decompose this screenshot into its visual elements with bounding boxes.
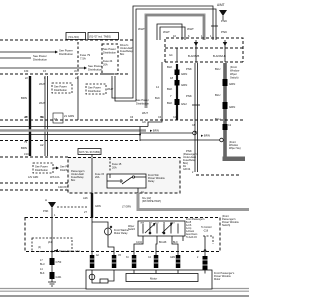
junction in sub-box [51, 251, 53, 253]
svg-text:Front Passenger's: Front Passenger's [186, 218, 205, 221]
svg-text:J9: J9 [74, 70, 77, 73]
label power door locks [54, 249, 81, 253]
svg-text:PNK: PNK [221, 19, 227, 23]
wire outer loop pair WHT [112, 6, 216, 101]
splice blobs on BLU column [223, 79, 228, 130]
svg-text:28: 28 [25, 116, 28, 119]
page bottom rule gray 2 [0, 290, 249, 292]
svg-text:Distribution: Distribution [136, 102, 150, 106]
svg-text:GN2: GN2 [181, 102, 187, 106]
dashed line y175 right [196, 174, 240, 176]
see power distribution dashed box b [86, 84, 106, 94]
svg-text:See Power: See Power [35, 165, 48, 169]
wire long horizontal thin 1 [0, 126, 148, 128]
node A/MT continuation arrow [217, 3, 227, 20]
note box 01-03 ALL TABS [78, 149, 101, 159]
svg-text:Motor Relay: Motor Relay [114, 232, 128, 235]
svg-text:WHT: WHT [39, 82, 46, 86]
svg-text:20A: 20A [103, 63, 108, 67]
dashed line y190 [0, 189, 130, 191]
svg-text:7.5A: 7.5A [80, 57, 86, 61]
connector stub hatched 5 [154, 255, 159, 268]
svg-text:F3: F3 [43, 70, 47, 73]
wire stubs through connector rows [177, 48, 225, 62]
relay box [107, 174, 146, 188]
labels WHT pair [39, 82, 46, 147]
see power distribution dashed box c [33, 163, 53, 173]
svg-text:LO: LO [156, 222, 159, 224]
wire down from sub-box [51, 252, 53, 259]
svg-text:See Power: See Power [103, 47, 116, 51]
in-line connector label box C725 [53, 113, 63, 123]
connector stub hatched 7 right [203, 252, 208, 271]
svg-text:GRN: GRN [170, 257, 175, 259]
svg-text:Relay: Relay [148, 180, 155, 183]
svg-text:BLK: BLK [155, 96, 160, 100]
svg-text:To A2A C6: To A2A C6 [186, 236, 197, 239]
wire BLU highlighted column (gray thick) [225, 63, 245, 159]
label front window wiper switch [230, 65, 239, 80]
svg-text:F30: F30 [24, 70, 29, 73]
combination switch dashed box [165, 38, 243, 62]
wiper switch contact block [138, 221, 185, 236]
label front window wiper switch lower [229, 141, 241, 150]
svg-text:To Control: To Control [201, 226, 212, 229]
svg-text:Power Door Locks: Power Door Locks [59, 249, 81, 253]
labels BLK wire [167, 65, 187, 106]
label power window motor [214, 272, 235, 281]
svg-text:WHT: WHT [142, 111, 148, 115]
to control unit bracket [197, 226, 213, 253]
switch wiper arrow left [194, 40, 198, 48]
wire BRN thick left [29, 76, 31, 156]
svg-text:WHT: WHT [107, 87, 114, 91]
wire highlighted relay to right edge [138, 193, 249, 210]
svg-text:C2: C2 [228, 124, 232, 127]
wire PNK column [195, 63, 198, 172]
wire long horizontal highlighted gray [0, 129, 146, 132]
svg-text:C4(C): C4(C) [136, 242, 142, 244]
wire to terminal circle 1 [140, 131, 196, 135]
tick and labels col 162 [155, 85, 160, 100]
svg-text:MIST: MIST [170, 222, 176, 224]
relay output tick [138, 188, 144, 194]
svg-text:G401: G401 [56, 276, 63, 279]
labels BLU column [215, 67, 235, 121]
svg-text:PNK: PNK [43, 209, 49, 213]
wire GRN feed through fuse box [91, 158, 93, 193]
svg-text:17: 17 [40, 259, 43, 262]
label wiper switch left [128, 225, 136, 231]
svg-text:W/S 10A: W/S 10A [50, 176, 60, 179]
connector tick on PNK column [192, 104, 200, 106]
svg-text:A-Up: A-Up [186, 227, 192, 230]
wire GRN inside switch box [91, 218, 93, 252]
small pin texts under boxes [28, 176, 60, 179]
svg-text:Distribution: Distribution [54, 88, 68, 92]
svg-text:18: 18 [170, 76, 174, 80]
node A continuation triangle left [43, 198, 56, 217]
labels stub1 [40, 259, 62, 279]
svg-text:LT GRN: LT GRN [122, 206, 131, 209]
washer motor circle [105, 226, 115, 251]
wire thin core of highlighted feed [146, 15, 204, 106]
washer motor branch [92, 222, 108, 228]
see power distribution arrow line 3 [0, 64, 102, 72]
label front washer motor [114, 229, 129, 235]
svg-text:A16: A16 [83, 196, 88, 200]
svg-text:BRN: BRN [21, 146, 27, 150]
svg-text:1: 1 [54, 213, 56, 217]
svg-text:Auto Down: Auto Down [186, 233, 198, 236]
dashed line y157 [0, 156, 68, 158]
svg-text:WHT: WHT [138, 27, 145, 31]
dashed line mid-left [0, 73, 130, 75]
svg-text:Window: Window [230, 69, 239, 73]
svg-text:C750: C750 [56, 261, 62, 264]
svg-text:C5: C5 [118, 255, 122, 257]
svg-text:Box: Box [120, 53, 125, 56]
svg-text:Switch: Switch [128, 228, 136, 231]
see power distribution line 2 [0, 54, 47, 62]
connector row dashed lower [165, 61, 243, 63]
junction jog at x140 [139, 127, 141, 142]
svg-text:GRN: GRN [229, 82, 235, 86]
svg-text:Fuse 15: Fuse 15 [112, 162, 122, 166]
fuse 15 dashed [110, 158, 122, 172]
svg-text:See Power: See Power [136, 98, 149, 102]
svg-text:27: 27 [84, 210, 87, 214]
label INT WIPE HIGH [142, 197, 161, 203]
svg-text:12V GRN: 12V GRN [28, 176, 39, 179]
label wiper relay [148, 174, 165, 183]
svg-text:A-C6: A-C6 [186, 224, 192, 227]
wiper washer switch dashed box [25, 218, 220, 252]
svg-text:Motor: Motor [150, 277, 157, 281]
svg-text:BRN: BRN [21, 96, 27, 100]
svg-text:GN: GN [142, 121, 146, 124]
svg-text:Fuse 24: Fuse 24 [103, 59, 113, 63]
svg-text:[A4]: [A4] [48, 241, 53, 244]
svg-text:BLU: BLU [215, 93, 220, 97]
svg-text:WHT: WHT [163, 30, 170, 34]
svg-text:BCA48: BCA48 [159, 241, 167, 244]
svg-text:(Front: (Front [230, 65, 237, 69]
svg-text:BLK: BLK [167, 65, 172, 69]
svg-text:Distribution: Distribution [103, 51, 117, 55]
svg-text:34: 34 [126, 257, 129, 259]
label passenger box right [183, 153, 198, 171]
wire from switch pin down col 162 [148, 62, 162, 127]
svg-text:BLU: BLU [40, 263, 45, 266]
arrow to see power distribution text d [53, 165, 74, 173]
svg-text:21 GRN: 21 GRN [64, 114, 74, 118]
labels PNK column [186, 67, 192, 153]
wire BLK thick from switch [176, 64, 178, 120]
svg-text:A/MT: A/MT [217, 3, 225, 7]
dashed stub near washer [57, 206, 88, 208]
svg-text:Wiper: Wiper [230, 72, 237, 76]
svg-text:B-ANS/LB: B-ANS/LB [213, 54, 226, 58]
contact stubs down [134, 236, 183, 255]
svg-text:6: 6 [188, 34, 190, 38]
wire long horizontal thin 2 [0, 134, 140, 136]
svg-text:Distribution: Distribution [59, 52, 73, 56]
dashed line y140 left [0, 140, 138, 142]
see power distribution arrow line 1 [0, 49, 73, 57]
splice blobs on BLK wire [175, 70, 180, 106]
see power distribution dashed box a [52, 83, 72, 93]
svg-text:GR 04: GR 04 [183, 168, 191, 171]
label front window wiper washer switch [222, 215, 239, 227]
note box 01-03 [66, 33, 86, 40]
svg-text:Distribution: Distribution [35, 168, 49, 172]
passenger fuse relay dashed box [68, 158, 180, 194]
switch wiper arrow right [223, 40, 227, 48]
wire highlighted feed (gray) [146, 15, 204, 108]
connector row dashed B-ANS [165, 47, 243, 49]
wire GRN thick into washer [91, 193, 93, 218]
svg-text:('01-'07 incl. TABS): ('01-'07 incl. TABS) [89, 35, 111, 39]
svg-text:GRN: GRN [181, 72, 187, 76]
connector stub hatched 1 [50, 258, 55, 279]
svg-text:GRN: GRN [229, 105, 235, 109]
label passenger under-dash text inside [71, 170, 85, 182]
label driver's under-dash fuse relay box [120, 44, 134, 56]
svg-text:BLK: BLK [40, 272, 45, 275]
wire to terminal circle 2 [140, 138, 223, 142]
labels inside switch box right [186, 218, 205, 239]
svg-text:2: 2 [197, 257, 199, 259]
svg-text:NOT ('01-'03 TABS): NOT ('01-'03 TABS) [79, 151, 100, 154]
wiper washer motor assembly box [86, 270, 212, 289]
svg-text:20A: 20A [95, 176, 100, 179]
svg-text:BLN: BLN [173, 242, 178, 244]
labels GRN wire [83, 196, 101, 214]
wire GRN from fuse79 [77, 76, 79, 120]
connector tick on PNK wire [211, 25, 218, 27]
svg-text:1: 1 [210, 34, 212, 38]
pin labels under contacts [136, 241, 178, 244]
svg-text:C6: C6 [130, 116, 134, 119]
svg-text:(4): (4) [38, 246, 41, 249]
svg-text:GRN: GRN [181, 83, 187, 87]
svg-text:J/10: J/10 [24, 153, 29, 156]
fuse 24 dashed box driver's fuse box [102, 44, 118, 74]
wire WHT pair left [45, 76, 48, 156]
pin labels y120 [25, 116, 232, 127]
dashed line y120 [0, 119, 243, 121]
page bottom rule dark [0, 295, 249, 297]
note box 01-07 incl TABS [88, 33, 119, 40]
svg-text:C4: C4 [148, 257, 152, 259]
svg-text:10: 10 [173, 34, 176, 38]
svg-text:22: 22 [25, 77, 28, 80]
svg-text:▶ BRN: ▶ BRN [150, 129, 159, 133]
svg-text:G4: G4 [169, 53, 173, 57]
svg-text:Motor: Motor [214, 278, 221, 281]
connector stub hatched 6 [176, 255, 181, 268]
svg-text:BLU: BLU [215, 67, 220, 71]
pin numbers on switch box top [173, 34, 212, 38]
svg-text:B1: B1 [41, 116, 45, 119]
svg-text:See Power: See Power [88, 86, 101, 90]
pin labels near stubs [96, 254, 199, 259]
svg-text:▶ BRN: ▶ BRN [201, 134, 210, 138]
svg-text:('01-'03): ('01-'03) [68, 35, 79, 39]
dashed line y183 [0, 182, 130, 184]
dashed line top-left [0, 39, 133, 41]
svg-text:PNK: PNK [186, 67, 192, 71]
svg-text:14: 14 [40, 268, 43, 271]
fuse 79 dashed [78, 42, 91, 74]
svg-text:Switch): Switch) [222, 224, 230, 227]
svg-text:20: 20 [197, 251, 200, 253]
svg-text:A-Down: A-Down [186, 230, 195, 233]
svg-text:A2: A2 [96, 254, 100, 257]
svg-text:Distribution: Distribution [33, 58, 47, 62]
svg-text:A: A [45, 198, 47, 202]
page bottom rule gray 1 [0, 288, 249, 290]
svg-text:B-A5: B-A5 [186, 221, 192, 224]
svg-text:B-ANS/B: B-ANS/B [188, 54, 199, 58]
see power distribution text mid [136, 98, 150, 106]
connector stub hatched 3 [112, 252, 117, 269]
svg-text:-C18: -C18 [203, 231, 209, 233]
connector stub hatched 2 [90, 252, 95, 269]
label fuse 2 [95, 173, 105, 179]
svg-text:PNK: PNK [221, 30, 227, 34]
svg-text:WHT: WHT [39, 101, 46, 105]
pin labels at y74 [24, 70, 78, 80]
svg-text:20A: 20A [112, 166, 117, 170]
junction dot [139, 134, 141, 136]
svg-text:See Power: See Power [54, 85, 67, 89]
svg-text:Box: Box [71, 179, 76, 182]
svg-text:Switch): Switch) [230, 76, 239, 80]
svg-text:BLK: BLK [167, 87, 172, 91]
connector stub hatched 4 [132, 255, 137, 268]
ground symbol [48, 279, 56, 286]
INT dashed sub-box [32, 238, 72, 252]
svg-text:(INT/WIPE-HIGH): (INT/WIPE-HIGH) [142, 200, 161, 203]
wire PNK inside box [51, 213, 53, 252]
svg-text:A2: A2 [40, 143, 44, 147]
label BRN [21, 96, 28, 150]
svg-text:GRN: GRN [95, 204, 101, 208]
wire inner loop WHT [157, 24, 185, 40]
svg-text:2: 2 [192, 171, 194, 174]
svg-text:C6: C6 [158, 116, 162, 119]
svg-text:14: 14 [156, 85, 159, 89]
svg-text:Distribution: Distribution [88, 89, 102, 93]
svg-text:7: 7 [170, 94, 172, 98]
svg-text:WHT: WHT [187, 27, 194, 31]
svg-text:Distribution: Distribution [88, 68, 102, 72]
svg-text:Wiper Sw): Wiper Sw) [229, 147, 241, 150]
svg-text:BLK: BLK [167, 101, 172, 105]
svg-text:PNK: PNK [186, 94, 192, 98]
